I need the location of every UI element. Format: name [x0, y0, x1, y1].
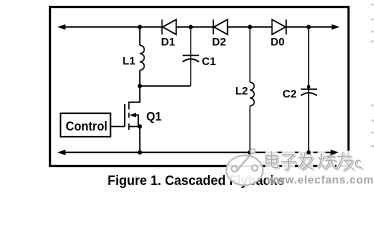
diode D2: [213, 20, 227, 35]
wire node to Q1 drain: [129, 86, 140, 102]
edge specks: [371, 4, 374, 148]
output arrow left (top rail): [57, 24, 65, 30]
transistor Q1 (NMOS): [125, 102, 140, 131]
capacitor C2: [301, 89, 317, 95]
wire L1 upper lead: [139, 27, 141, 45]
svg-text:L2: L2: [235, 85, 248, 97]
wire C2 lead: [308, 27, 310, 152]
svg-text:C1: C1: [202, 56, 216, 68]
control block U1: [61, 113, 111, 136]
node L1/C1/Q1 drain junction: [138, 84, 142, 88]
wire top rail segment A: [63, 26, 162, 28]
node L1 top junction: [138, 25, 142, 29]
svg-text:D1: D1: [161, 37, 175, 49]
return arrow left (bottom rail): [57, 150, 65, 156]
watermark whitening blobs: [265, 151, 362, 172]
output arrow right (top rail): [332, 24, 340, 30]
inductor L2: [250, 82, 254, 106]
node C2 top junction: [306, 25, 310, 29]
wire Q1 source to bottom rail: [139, 127, 141, 153]
wire C1 lead: [190, 27, 192, 86]
svg-text:D2: D2: [212, 37, 226, 49]
capacitor C1: [183, 55, 199, 61]
svg-text:Q1: Q1: [146, 111, 162, 123]
svg-text:C2: C2: [283, 89, 297, 101]
node C2 plate tick: [307, 85, 310, 88]
node L2 top junction: [248, 25, 252, 29]
wire gate: [111, 126, 125, 128]
svg-text:Control: Control: [66, 118, 108, 133]
wire top rail segment C: [228, 26, 272, 28]
diode D0: [272, 20, 286, 35]
wire L2 upper lead: [249, 27, 251, 82]
wire bottom rail: [63, 151, 333, 153]
inductor L1: [140, 45, 144, 70]
svg-text:www.elecfans.com: www.elecfans.com: [266, 174, 374, 186]
svg-text:D0: D0: [271, 37, 285, 49]
wire L2 lower lead: [249, 106, 251, 152]
svg-text:L1: L1: [123, 56, 136, 68]
wire top rail segment D: [286, 26, 333, 28]
node L2 bottom rail junction: [248, 150, 252, 154]
wire top rail segment B: [176, 26, 213, 28]
wire C1 bottom to L1 node: [140, 85, 191, 87]
wire L1 lower lead: [139, 70, 141, 86]
return arrow right (bottom rail): [331, 150, 339, 156]
node C2 bottom rail junction (over watermark): [307, 150, 339, 155]
watermark logo circle: [226, 149, 263, 185]
node C1 top junction: [189, 25, 193, 29]
diode D1: [162, 20, 176, 35]
node Q1 source bottom rail junction: [138, 150, 142, 154]
node Q1 source junction: [138, 124, 142, 128]
